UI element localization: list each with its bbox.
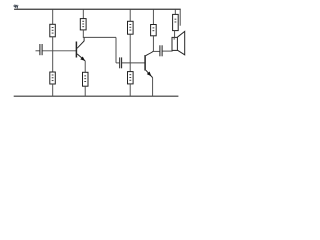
wire: rail down to R1 [52, 9, 54, 24]
wire: collector node horizontal run [83, 36, 116, 38]
resistor R8 [173, 14, 179, 30]
wire: collector node down to C2 [115, 37, 117, 63]
wire: R3 down to collector corner [82, 30, 84, 38]
value label R7 [153, 27, 155, 31]
wire: rail down to R8 [174, 9, 176, 14]
value label R1 [52, 27, 54, 34]
value label R6 [129, 74, 131, 81]
resistor R7 [151, 25, 157, 36]
value label R3 [82, 21, 84, 27]
wire: R1 to R2 (Q1 base bias node) [52, 37, 54, 72]
supply label 9V [14, 5, 18, 8]
capacitor C1 [40, 44, 42, 55]
resistor R3 [80, 19, 86, 30]
transistor Q1 [76, 38, 85, 61]
wire: Q1 emitter down to R4 [84, 61, 86, 72]
resistor R6 [128, 72, 134, 84]
value label R2 [52, 75, 54, 82]
resistor R4 [83, 72, 89, 86]
resistor R5 [128, 21, 134, 34]
value label R5 [129, 24, 131, 31]
wire: C1 to Q1 base [43, 50, 77, 52]
wire: input stub [36, 50, 40, 52]
wire: rail down to R5 [129, 9, 131, 21]
wire: output node to C3 [152, 50, 159, 52]
loudspeaker LS1 [172, 31, 185, 54]
wire: rail down to R7 [152, 9, 154, 24]
value label R4 [84, 75, 86, 82]
resistor R1 [50, 24, 56, 37]
resistor R2 [50, 72, 56, 84]
capacitor C2 [120, 57, 122, 68]
transistor Q2 [145, 51, 153, 77]
wire: C3 to speaker bottom terminal [163, 50, 173, 52]
wire: rail end stub [179, 9, 181, 25]
wire: R4 to 0V rail [84, 86, 86, 96]
wire: C2 to Q2 base [122, 62, 145, 64]
wire: R2 to 0V rail [52, 84, 54, 97]
wire: R5 to R6 (Q2 base bias node) [129, 34, 131, 71]
value label R8 [175, 19, 177, 23]
wire: R8 down to speaker top terminal [174, 31, 176, 38]
wire: R7 down to output node [152, 36, 154, 52]
wire: Q2 emitter down to 0V rail [152, 78, 154, 97]
wire: corner to C2 left plate [116, 62, 119, 64]
wire: 0V bottom rail [14, 95, 179, 97]
wire: +9V top rail [14, 8, 181, 10]
wire: R6 to 0V rail [129, 84, 131, 97]
wire: rail down to R3 [82, 9, 84, 18]
capacitor C3 [160, 45, 162, 56]
